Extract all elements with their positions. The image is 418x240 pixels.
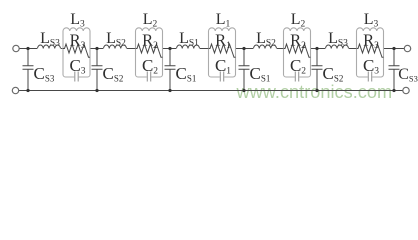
inductor LS1 xyxy=(177,45,200,48)
node dot bottom x=244 xyxy=(242,89,245,92)
node dot bottom x=170 xyxy=(168,89,171,92)
tank box 5: inductor L3, resistor R3, capacitor C3 xyxy=(357,31,384,77)
node dot top x=394 xyxy=(392,47,395,50)
node dot top x=97 xyxy=(95,47,98,50)
tank box 4: inductor L2, resistor R2, capacitor C2 xyxy=(284,31,311,77)
wire top rail segments xyxy=(19,48,404,50)
capacitor CS2 shunt xyxy=(312,49,323,91)
tank box 2: inductor L2, resistor R2, capacitor C2 xyxy=(136,31,163,77)
node dot top x=170 xyxy=(168,47,171,50)
node dot top x=244 xyxy=(242,47,245,50)
node dot bottom x=28 xyxy=(26,89,29,92)
wire bottom rail xyxy=(19,90,403,92)
tank box 3: inductor L1, resistor R1, capacitor C1 xyxy=(209,31,236,77)
inductor LS3 xyxy=(38,45,61,48)
terminal top-right xyxy=(404,45,410,51)
node dot bottom x=97 xyxy=(95,89,98,92)
node dot bottom x=394 xyxy=(392,89,395,92)
capacitor CS1 shunt xyxy=(239,49,250,91)
terminal bottom-left xyxy=(12,87,18,93)
inductor LS3 xyxy=(326,45,349,48)
terminal top-left xyxy=(13,45,19,51)
capacitor CS2 shunt xyxy=(92,49,103,91)
terminal bottom-right xyxy=(403,87,409,93)
capacitor CS3 shunt xyxy=(389,49,400,91)
inductor LS2 xyxy=(254,45,277,48)
node dot top x=28 xyxy=(26,47,29,50)
node dot bottom x=317 xyxy=(315,89,318,92)
tank box 1: inductor L3, resistor R3, capacitor C3 xyxy=(63,31,90,77)
capacitor CS1 shunt xyxy=(165,49,176,91)
inductor LS2 xyxy=(104,45,127,48)
svg-text:www.cntronics.com: www.cntronics.com xyxy=(236,82,393,102)
node dot top x=317 xyxy=(315,47,318,50)
capacitor CS3 shunt xyxy=(23,49,34,91)
